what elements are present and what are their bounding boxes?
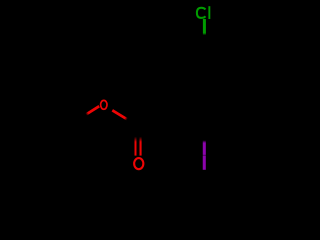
- atom I (iodine label, purple): [203, 155, 206, 169]
- bond O-CH2 (half-bond near O, red, fades toward ethyl carbon): [86, 106, 99, 114]
- l glyph of Cl: [208, 6, 210, 19]
- bond O-C(=O) (half-bond near O, red, fades toward carbonyl carbon): [112, 110, 127, 119]
- C glyph of Cl: [197, 8, 206, 18]
- bond C5-Cl (half-bond near Cl, green, fades toward ring carbon): [203, 19, 206, 35]
- bond C2-I (half-bond near I, purple, fades toward ring carbon): [203, 140, 206, 155]
- atom Cl (chlorine label, green): [197, 6, 210, 19]
- chemical structure: ethyl 5-chloro-2-iodobenzoate skeletal formula on black: [0, 0, 300, 176]
- bond C=O double bond (red halves near carbonyl O, fade upward toward carbon): [136, 137, 141, 156]
- atom O (carbonyl oxygen label, red): [134, 158, 143, 169]
- atom O (ester oxygen label, red): [101, 100, 107, 109]
